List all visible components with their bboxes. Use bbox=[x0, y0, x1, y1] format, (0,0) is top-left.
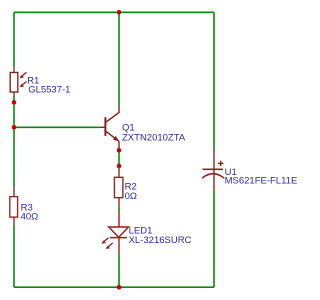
svg-text:ZXTN2010ZTA: ZXTN2010ZTA bbox=[122, 132, 186, 143]
svg-text:XL-3216SURC: XL-3216SURC bbox=[129, 235, 192, 246]
wire left rail upper (top corner to R1 pin) bbox=[13, 12, 15, 66]
resistor R3 bbox=[10, 187, 18, 225]
R1 light arrow 2 bbox=[21, 82, 27, 87]
LED1 triangle bbox=[109, 227, 129, 237]
svg-text:GL5537-1: GL5537-1 bbox=[28, 85, 70, 96]
U1 positive pin bbox=[213, 152, 215, 174]
LED LED1 bbox=[102, 212, 129, 254]
Q1 emitter with arrow bbox=[106, 131, 119, 141]
junction dot R2 top bbox=[117, 164, 122, 169]
junction dot emitter bbox=[117, 148, 122, 153]
wire right rail upper (top corner to U1) bbox=[213, 12, 215, 151]
junction dot below R1 bbox=[12, 100, 17, 105]
resistor R2 bbox=[114, 166, 123, 207]
R1 body bbox=[10, 73, 18, 93]
wire emitter to R2 bbox=[118, 150, 120, 166]
wire collector branch bbox=[118, 12, 120, 105]
R3 body bbox=[10, 197, 18, 218]
photoresistor R1 bbox=[10, 66, 26, 97]
Q1 collector pin bbox=[106, 106, 119, 123]
R2 pin 2 bbox=[118, 198, 120, 207]
svg-text:40Ω: 40Ω bbox=[21, 212, 39, 223]
R1 pin 2 (gray) bbox=[13, 92, 15, 97]
svg-text:0Ω: 0Ω bbox=[125, 191, 137, 202]
wire LED1 to bottom rail bbox=[118, 254, 120, 287]
junction dot bottom rail bbox=[117, 285, 122, 290]
junction dot left rail / base wire bbox=[12, 125, 17, 130]
R3 pin 2 bbox=[13, 217, 15, 225]
transistor Q1 bbox=[100, 106, 120, 151]
battery U1 bbox=[202, 152, 224, 190]
Q1 base bar bbox=[104, 117, 106, 136]
R2 body bbox=[114, 177, 123, 197]
LED1 cathode bar bbox=[110, 237, 127, 239]
LED1 light arrow 2 bbox=[107, 243, 113, 248]
U1 negative pin bbox=[213, 174, 215, 190]
wire bottom rail bbox=[14, 286, 214, 288]
wire top rail VCC bbox=[14, 11, 214, 13]
wire left rail lower (R3 to bottom corner) bbox=[13, 225, 15, 287]
R1 pin 1 (gray) bbox=[13, 66, 15, 73]
wire base (left rail to Q1 base) bbox=[14, 126, 100, 128]
R3 pin 1 bbox=[13, 187, 15, 196]
wire R2 to LED1 bbox=[118, 207, 120, 212]
U1 positive plate bbox=[203, 168, 224, 170]
R2 pin 1 bbox=[118, 166, 120, 177]
U1 plus sign bbox=[218, 162, 224, 164]
LED1 light arrow 1 bbox=[103, 238, 109, 243]
U1 negative curved plate bbox=[202, 174, 224, 179]
svg-text:MS621FE-FL11E: MS621FE-FL11E bbox=[225, 176, 298, 187]
junction dot top rail bbox=[117, 10, 122, 15]
wire right rail lower (U1 to bottom corner) bbox=[213, 190, 215, 287]
LED1 cathode pin bbox=[118, 238, 120, 254]
Q1 base pin bbox=[100, 126, 106, 128]
LED1 anode pin bbox=[118, 212, 120, 227]
wire left rail middle (R1 to R3) bbox=[13, 96, 15, 188]
R1 light arrow 1 bbox=[21, 72, 27, 77]
